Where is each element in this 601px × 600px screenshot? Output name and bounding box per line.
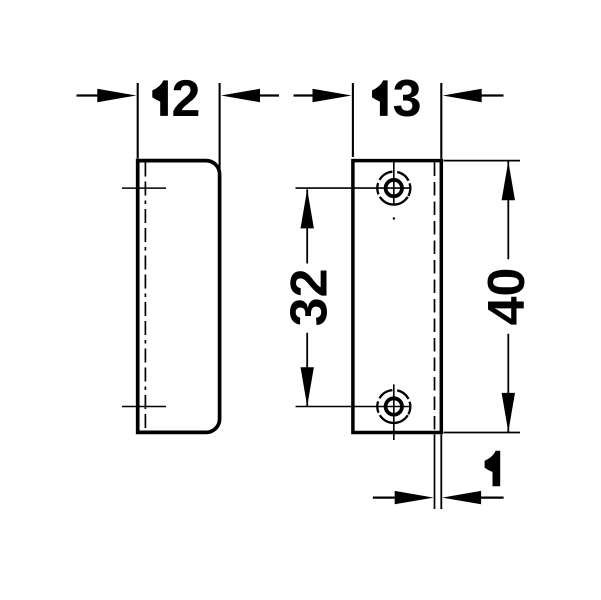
- dimension 13 left arrow: [294, 94, 318, 96]
- left view bottom hole axis tick: [122, 406, 166, 408]
- right view hidden bend dashed line: [434, 163, 436, 431]
- dimension 40 up arrow: [502, 161, 515, 200]
- dimension 40 extension line top: [444, 160, 521, 162]
- dimension 40 line lower segment: [507, 334, 509, 432]
- dimension 12 label: [152, 80, 168, 116]
- right view outline (front face): [353, 161, 441, 433]
- svg-text:3: 3: [393, 70, 422, 128]
- dimension 13 right arrow: [443, 89, 482, 102]
- dimension 1 extension line right: [440, 434, 442, 509]
- dimension 40 label: [478, 268, 536, 326]
- dimension 12 right arrow: [221, 89, 260, 102]
- dimension 12 extension line left: [137, 83, 139, 159]
- dimension 32 up arrow: [301, 189, 314, 228]
- top hole horizontal center line: [296, 187, 412, 189]
- left view top hole axis tick: [122, 187, 166, 189]
- top hole bore ring: [386, 180, 402, 196]
- svg-text:2: 2: [171, 70, 200, 128]
- dimension 12 left arrow: [77, 94, 101, 96]
- dimension 13 extension line left: [352, 83, 354, 157]
- stray dot artifact: [393, 217, 395, 219]
- top hole vertical center line: [393, 162, 395, 206]
- dimension 1 extension line left: [434, 434, 436, 509]
- dimension 1 left arrow: [373, 497, 400, 499]
- left view hidden inner-face dash-dot line: [144, 163, 146, 431]
- svg-text:32: 32: [281, 268, 339, 326]
- bottom hole horizontal center line: [296, 406, 412, 408]
- dimension 40 extension line bottom: [444, 432, 521, 434]
- dimension 13 label: [372, 80, 388, 116]
- svg-text:40: 40: [478, 268, 536, 326]
- dimension 40 down arrow: [502, 393, 515, 432]
- dimension 32 line lower segment: [306, 333, 308, 406]
- dimension 40 line upper segment: [507, 161, 509, 259]
- top hole countersink dashed circle: [377, 172, 410, 205]
- bottom hole bore ring: [386, 398, 402, 414]
- dimension 12 extension line right: [219, 83, 221, 169]
- dimension 13 extension line right: [440, 83, 442, 159]
- bottom hole vertical center line: [393, 384, 395, 440]
- dimension 1 label: [485, 451, 501, 487]
- dimension 1 right arrow: [442, 491, 481, 504]
- left view outline (side profile of bracket): [138, 161, 220, 433]
- bottom hole countersink dashed circle: [377, 390, 410, 423]
- dimension 32 line upper segment: [306, 189, 308, 263]
- dimension 32 down arrow: [301, 367, 314, 406]
- dimension 32 label: [281, 268, 339, 326]
